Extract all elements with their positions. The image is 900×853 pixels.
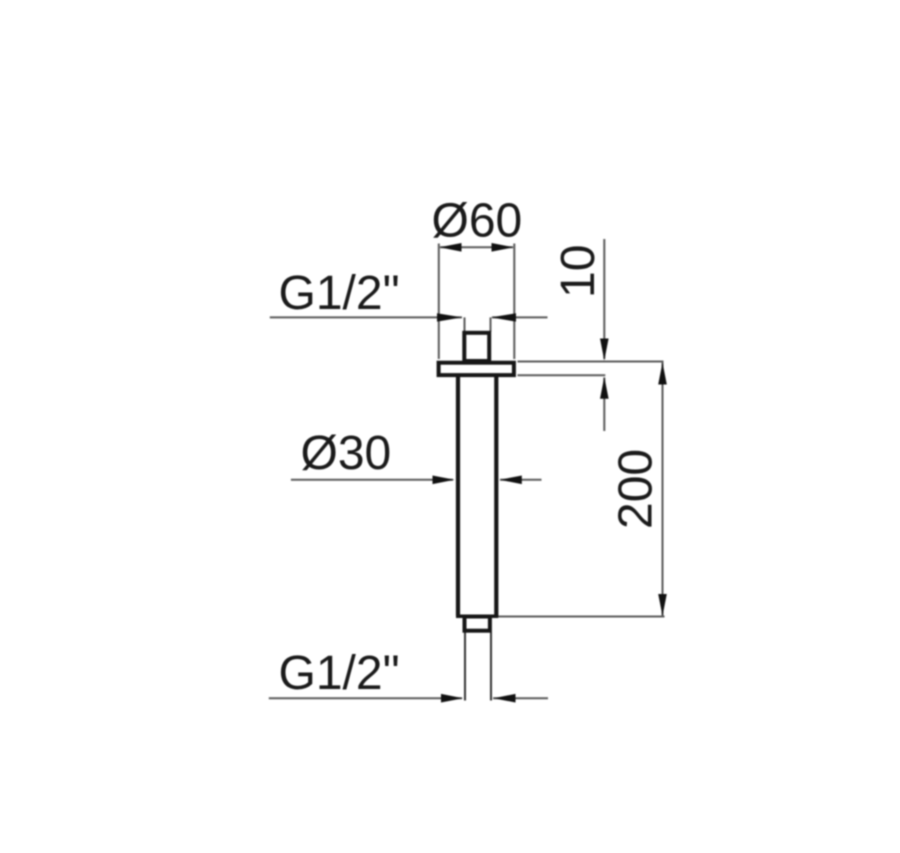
svg-text:10: 10 (552, 245, 605, 298)
svg-text:Ø60: Ø60 (432, 195, 523, 248)
svg-text:200: 200 (610, 449, 663, 529)
svg-text:Ø30: Ø30 (301, 427, 392, 480)
svg-text:G1/2": G1/2" (279, 647, 400, 700)
svg-text:G1/2": G1/2" (279, 267, 400, 320)
